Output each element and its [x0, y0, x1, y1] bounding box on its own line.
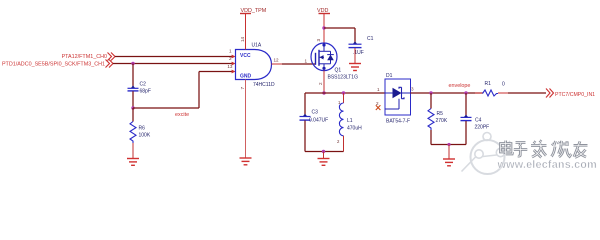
wire excite rail [133, 107, 199, 109]
diode D1 [385, 79, 411, 115]
watermark text 电子发烧友 [501, 141, 588, 158]
svg-text:C2: C2 [140, 82, 147, 88]
wire U1 pin7 to ground [245, 80, 247, 159]
svg-text:Q1: Q1 [335, 68, 342, 74]
wire Q1 source down [323, 71, 325, 94]
op-amp U1A AND gate body [236, 50, 272, 80]
pin 13 arrow U1 [232, 70, 236, 74]
svg-text:R5: R5 [437, 111, 444, 117]
ground (tank) [318, 159, 330, 166]
wire gate net to Q1 [282, 63, 316, 65]
wire C1 lower [354, 48, 356, 64]
svg-text:PTA12/FTM1_CH0: PTA12/FTM1_CH0 [62, 54, 107, 60]
wire tank ground stem [323, 152, 325, 159]
svg-text:PTD1/ADC0_SE5B/SPI0_SCK/FTM3_C: PTD1/ADC0_SE5B/SPI0_SCK/FTM3_CH1 [2, 62, 105, 68]
svg-text:R6: R6 [139, 126, 146, 132]
capacitor C4 [461, 115, 472, 121]
wire U1 output stub [272, 63, 283, 65]
wire C4 lower [465, 121, 467, 145]
svg-text:2: 2 [318, 82, 323, 85]
capacitor C2 [128, 86, 139, 91]
svg-text:100K: 100K [139, 133, 151, 139]
svg-text:PTC7/CMP0_IN1: PTC7/CMP0_IN1 [555, 92, 595, 98]
pin 2 arrow U1 [232, 62, 236, 66]
svg-text:1: 1 [305, 59, 308, 64]
watermark logo [462, 133, 511, 175]
node PTA12/FTM1_CH0 [62, 53, 115, 61]
inductor L1 [339, 93, 343, 152]
resistor R5 [428, 93, 434, 145]
svg-text:L1: L1 [347, 118, 353, 124]
wire tank rail left [305, 92, 385, 94]
capacitor C1 [349, 41, 362, 47]
wire C4 upper [465, 93, 467, 117]
ground (R5/C4) [443, 159, 455, 166]
svg-text:U1A: U1A [252, 43, 262, 49]
wire to U1 pin13 [199, 71, 232, 73]
svg-text:envelope: envelope [449, 83, 471, 89]
wire to output [508, 92, 546, 94]
junction VDD/C1 [322, 26, 325, 29]
wire C3 lower [304, 121, 306, 152]
power VDD [317, 8, 330, 44]
svg-text:74HC11D: 74HC11D [253, 82, 275, 88]
svg-text:D1: D1 [386, 73, 393, 79]
svg-text:470uH: 470uH [347, 126, 362, 132]
ground (R6) [127, 159, 139, 166]
wire net1 to U1 pin1 [115, 56, 232, 58]
svg-text:220PF: 220PF [475, 125, 490, 131]
wire net2 to U1 pin2 [113, 63, 232, 65]
svg-text:excite: excite [175, 112, 189, 118]
svg-text:0: 0 [502, 82, 505, 88]
wire riser to pin13 [198, 72, 200, 109]
svg-text:www.elecfans.com: www.elecfans.com [497, 159, 597, 171]
transistor Q1 [311, 43, 337, 71]
svg-text:3: 3 [316, 39, 321, 42]
svg-text:14: 14 [240, 36, 245, 42]
wire C1 upper [354, 28, 356, 44]
svg-text:BAT54-7-F: BAT54-7-F [386, 119, 410, 125]
svg-text:C1: C1 [367, 36, 374, 42]
wire tank bottom rail [305, 151, 344, 153]
resistor R6 [130, 108, 136, 159]
junction L1 top [342, 91, 345, 94]
capacitor C3 [300, 114, 311, 120]
svg-text:68pF: 68pF [140, 88, 151, 94]
svg-text:C3: C3 [312, 110, 319, 116]
svg-text:0.047UF: 0.047UF [309, 118, 328, 124]
wire VDD to C1 [324, 27, 355, 29]
junction tank ground [322, 150, 325, 153]
no-connect X on D1 pin2 [376, 105, 381, 110]
resistor R1 [475, 90, 508, 96]
node PTC7/CMP0_IN1 [546, 89, 595, 99]
node PTD1/ADC0_SE5B/SPI0_SCK/FTM3_CH1 [2, 60, 113, 68]
svg-text:R1: R1 [485, 81, 492, 87]
svg-text:C4: C4 [475, 118, 482, 124]
wire C3 upper [304, 93, 306, 116]
wire envelope rail [411, 92, 484, 94]
junction Q1 source/rail [322, 91, 325, 94]
svg-text:1: 1 [229, 49, 232, 54]
ground (C1) [349, 64, 361, 71]
svg-text:13: 13 [227, 64, 233, 69]
svg-text:GND: GND [240, 74, 252, 80]
svg-text:12: 12 [274, 58, 280, 63]
power VDD_TPM [240, 8, 267, 50]
svg-text:BSS123LT1G: BSS123LT1G [328, 75, 359, 81]
junction ground R5C4 [447, 143, 450, 146]
junction excite/R6 [131, 106, 134, 109]
svg-text:1: 1 [377, 87, 380, 92]
junction net2/C2 [131, 62, 134, 65]
wire ground stem R5C4 [448, 145, 450, 160]
svg-text:7: 7 [240, 87, 245, 90]
junction D1/R5 [429, 91, 432, 94]
svg-text:VCC: VCC [240, 53, 251, 59]
junction C4 top [464, 91, 467, 94]
wire C2 branch upper [132, 64, 134, 89]
svg-text:270K: 270K [436, 118, 448, 124]
svg-text:3: 3 [411, 87, 414, 92]
pin 1 arrow U1 [232, 55, 236, 59]
wire C2 to excite rail [132, 91, 134, 108]
svg-text:2: 2 [229, 56, 232, 61]
ground (U1) [240, 158, 252, 165]
wire bottom rail R5-C4 [431, 144, 466, 146]
